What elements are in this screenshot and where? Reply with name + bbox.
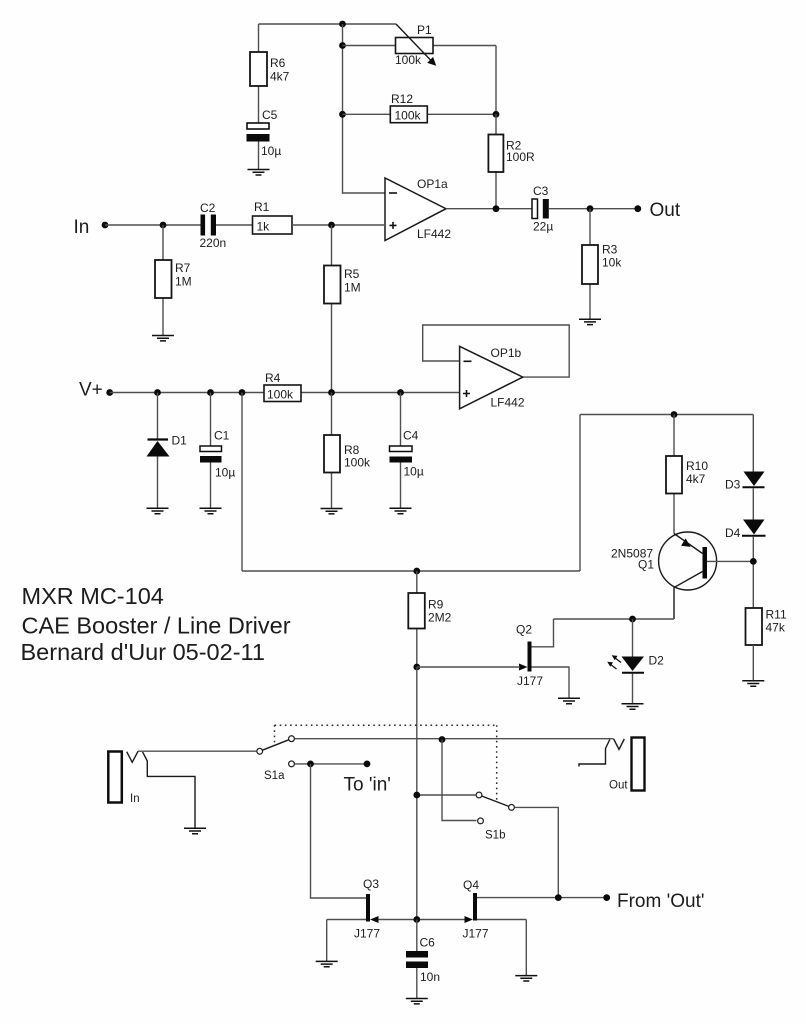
op-amp OP1b: [423, 325, 570, 410]
node junction R1/R5/+input: [328, 222, 335, 229]
resistor R10: [666, 415, 708, 534]
wire In row: [105, 224, 201, 226]
capacitor C4: [390, 393, 424, 509]
svg-text:OP1b: OP1b: [491, 346, 522, 360]
node junction R12 row: [339, 111, 346, 118]
ground below C4: [390, 508, 412, 513]
wire S1a lower throw To 'in' stub: [295, 763, 367, 765]
dotted switch linkage box: [275, 725, 497, 801]
svg-text:100k: 100k: [344, 456, 371, 470]
svg-text:R12: R12: [391, 92, 413, 106]
svg-text:J177: J177: [517, 674, 543, 688]
node junction C1: [207, 389, 214, 396]
wire OP1a output row: [446, 208, 532, 210]
diode D3: [725, 415, 765, 492]
transistor Q3 J177: [327, 877, 417, 961]
svg-text:R1: R1: [254, 200, 270, 214]
svg-text:R4: R4: [265, 371, 281, 385]
svg-text:C5: C5: [262, 108, 278, 122]
resistor R8: [324, 393, 371, 509]
svg-text:C4: C4: [403, 429, 419, 443]
ground below R7: [152, 336, 174, 341]
resistor R11: [746, 608, 787, 681]
jack J-Out: [579, 738, 645, 792]
switch S1a: [257, 736, 295, 782]
title text block: [21, 583, 291, 665]
ground below R3: [579, 319, 601, 324]
svg-text:4k7: 4k7: [270, 70, 290, 84]
wire S1a throw to Out jack tip: [295, 738, 614, 740]
svg-text:1M: 1M: [344, 281, 361, 295]
node junction top rail / P1 wiper column: [339, 21, 346, 28]
node junction R2/output: [493, 205, 500, 212]
capacitor C3: [532, 184, 553, 234]
node junction R12/R2: [493, 111, 500, 118]
resistor R6: [250, 24, 290, 123]
node junction To-in drop: [307, 761, 314, 768]
wire In jack tip to S1a: [138, 750, 256, 752]
svg-text:10µ: 10µ: [404, 465, 424, 479]
svg-text:V+: V+: [79, 380, 103, 401]
svg-text:1k: 1k: [257, 220, 271, 234]
svg-text:10µ: 10µ: [215, 466, 235, 480]
node junction R5/R8: [328, 389, 335, 396]
ground below R11: [742, 681, 764, 686]
svg-text:S1b: S1b: [485, 830, 505, 842]
ground below Q2: [558, 698, 580, 703]
ground below Q4: [515, 976, 537, 981]
wire S1b pole to From-Out column: [515, 807, 558, 897]
svg-text:Q2: Q2: [516, 623, 532, 637]
node junction C4: [397, 389, 404, 396]
ground below C1: [200, 508, 222, 513]
node junction D2: [629, 616, 636, 623]
ground below R8: [321, 509, 343, 514]
svg-text:100k: 100k: [395, 109, 422, 123]
jack J-In: [108, 751, 195, 828]
ground below C5: [248, 170, 270, 176]
op-amp OP1a: [385, 177, 451, 241]
node In terminal: [74, 217, 109, 238]
svg-text:C2: C2: [200, 201, 216, 215]
wire top feedback rail: [259, 23, 397, 25]
node Out terminal: [634, 200, 680, 221]
svg-text:LF442: LF442: [491, 396, 525, 410]
svg-text:Out: Out: [650, 200, 681, 221]
svg-text:J177: J177: [463, 927, 489, 941]
node junction V+ drop column: [239, 389, 246, 396]
svg-text:C1: C1: [214, 429, 230, 443]
wire right section left riser: [579, 415, 581, 572]
svg-text:OP1a: OP1a: [417, 177, 448, 191]
svg-text:D4: D4: [725, 526, 741, 540]
transistor Q1 2N5087: [611, 532, 753, 619]
wire Q1 collector row: [554, 618, 675, 620]
wire V+ rail: [110, 392, 460, 394]
resistor R4: [264, 371, 301, 402]
resistor R1: [216, 200, 385, 234]
potentiometer P1: [343, 23, 497, 67]
wire C3 to Out: [549, 208, 638, 210]
svg-text:Q4: Q4: [463, 878, 479, 892]
capacitor C2: [200, 201, 227, 250]
svg-text:C3: C3: [533, 184, 549, 198]
svg-text:To 'in': To 'in': [344, 775, 391, 796]
ground below In jack: [184, 828, 206, 833]
node junction R10 top: [671, 411, 678, 418]
svg-text:D3: D3: [725, 478, 741, 492]
svg-text:10k: 10k: [602, 256, 622, 270]
diode D1: [147, 393, 188, 509]
ground below D1: [147, 508, 169, 513]
svg-text:R6: R6: [270, 56, 286, 70]
svg-text:D2: D2: [649, 654, 665, 668]
svg-text:R7: R7: [175, 261, 191, 275]
node junction D1: [154, 389, 161, 396]
svg-text:Bernard d'Uur 05-02-11: Bernard d'Uur 05-02-11: [21, 639, 265, 665]
svg-text:R11: R11: [766, 608, 787, 622]
node From 'Out' terminal: [603, 891, 704, 912]
svg-text:R10: R10: [686, 459, 708, 473]
svg-text:P1: P1: [417, 23, 432, 37]
svg-text:D1: D1: [172, 434, 188, 448]
node junction C6/gates: [413, 916, 420, 923]
switch S1b: [413, 792, 514, 842]
capacitor C1: [200, 393, 235, 509]
node junction Q1 base / R11: [750, 558, 757, 565]
svg-text:22µ: 22µ: [533, 220, 553, 234]
svg-text:In: In: [130, 793, 140, 805]
ground below C6: [406, 999, 428, 1004]
resistor R9: [408, 571, 451, 667]
wire P1 right leg down to R12 row: [495, 46, 497, 115]
svg-text:Q1: Q1: [638, 558, 654, 572]
wire Q2 gate: [417, 666, 520, 668]
node To 'in' terminal: [344, 761, 391, 796]
svg-text:In: In: [74, 217, 90, 238]
resistor R12: [343, 92, 497, 123]
wire bypass column to S1b throw: [442, 740, 477, 821]
svg-text:4k7: 4k7: [686, 472, 706, 486]
svg-text:100k: 100k: [267, 388, 294, 402]
svg-text:R5: R5: [344, 267, 360, 281]
node junction From-Out/S1b: [555, 894, 562, 901]
svg-text:100R: 100R: [506, 150, 535, 164]
node junction R3: [587, 205, 594, 212]
svg-text:LF442: LF442: [417, 227, 451, 241]
svg-text:S1a: S1a: [264, 770, 285, 782]
svg-text:2M2: 2M2: [428, 611, 452, 625]
node junction bypass column: [439, 736, 446, 743]
resistor R2: [488, 114, 535, 208]
svg-text:Q3: Q3: [363, 877, 379, 891]
ground below D2: [622, 704, 644, 709]
svg-text:CAE Booster / Line Driver: CAE Booster / Line Driver: [22, 613, 291, 639]
svg-text:MXR MC-104: MXR MC-104: [22, 583, 164, 609]
node junction R9 top: [413, 568, 420, 575]
capacitor C6: [406, 920, 440, 999]
node junction R9 bottom / Q2 gate: [413, 664, 420, 671]
resistor R7: [155, 225, 192, 336]
svg-text:100k: 100k: [395, 53, 422, 67]
capacitor C5: [247, 108, 282, 170]
svg-text:From 'Out': From 'Out': [617, 891, 705, 912]
resistor R5: [324, 225, 361, 393]
transistor Q4 J177: [417, 878, 607, 975]
svg-text:R3: R3: [602, 243, 618, 257]
transistor Q2 J177: [516, 619, 569, 698]
diode D4: [725, 488, 766, 608]
wire right section top rail: [580, 414, 753, 416]
LED D2: [607, 619, 664, 704]
svg-text:R9: R9: [428, 598, 444, 612]
svg-text:J177: J177: [354, 927, 380, 941]
svg-text:220n: 220n: [200, 236, 227, 250]
resistor R3: [582, 209, 622, 319]
svg-text:10n: 10n: [420, 970, 440, 984]
svg-text:C6: C6: [420, 936, 436, 950]
wire lower distribution row: [242, 570, 580, 572]
svg-text:47k: 47k: [766, 621, 786, 635]
wire To-in column down to Q3: [311, 764, 367, 898]
node junction In/R7: [160, 222, 167, 229]
wire inverting-input column: [343, 24, 386, 193]
svg-text:10µ: 10µ: [261, 144, 281, 158]
svg-text:Out: Out: [609, 780, 628, 792]
wire center column: [416, 667, 418, 920]
node junction P1 row: [339, 42, 346, 49]
svg-text:1M: 1M: [175, 275, 192, 289]
ground below Q3: [316, 961, 338, 966]
node V+ terminal: [79, 380, 113, 401]
wire V+ column down-left drop: [241, 393, 243, 572]
